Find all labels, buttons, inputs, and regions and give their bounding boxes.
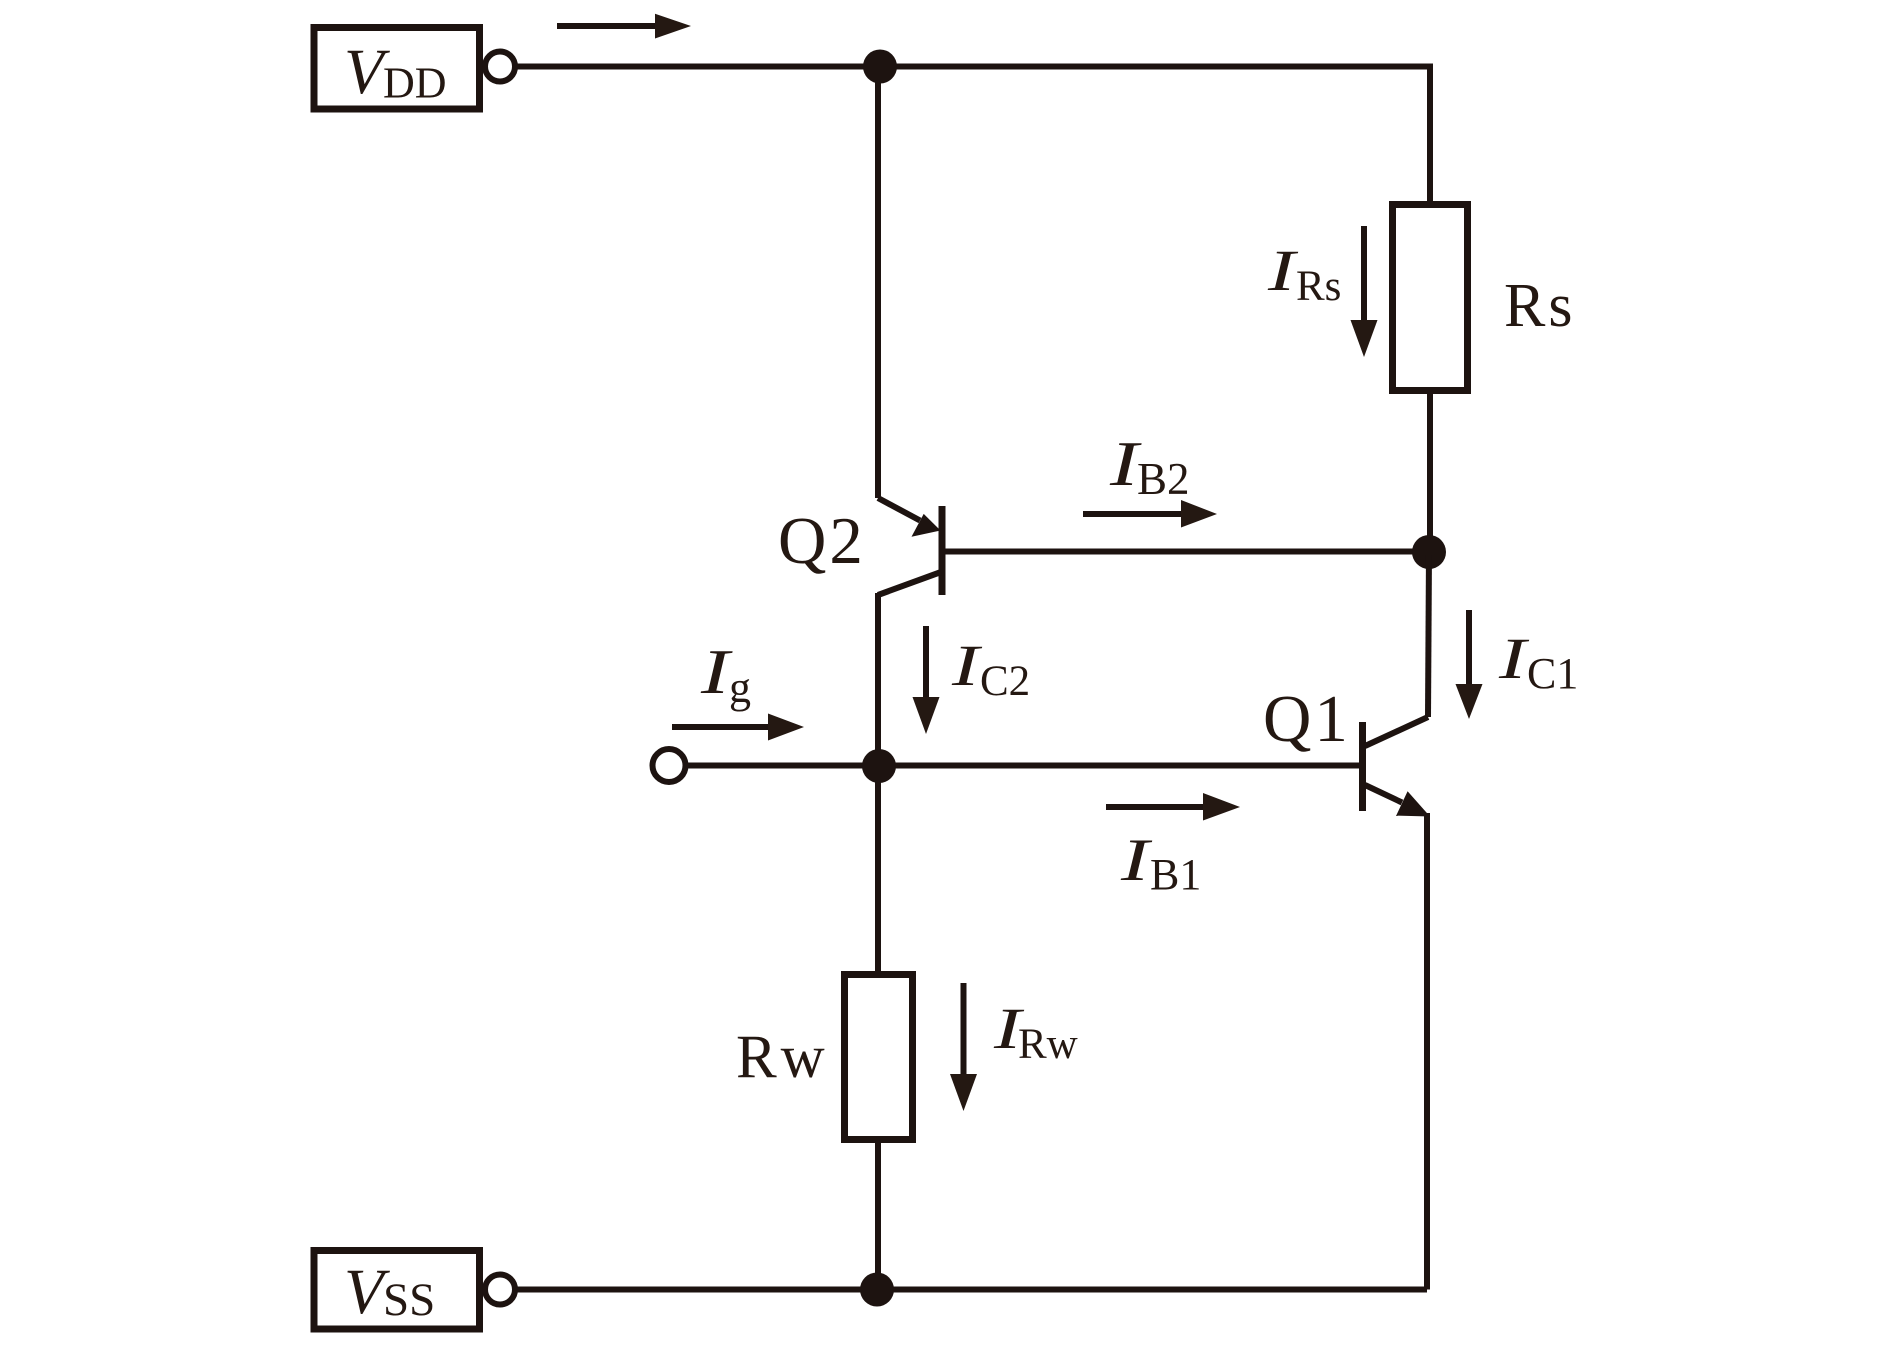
svg-text:Rw: Rw — [736, 1024, 829, 1091]
wire VSS bottom rail — [515, 1287, 1427, 1293]
wire VDD top rail — [515, 67, 1430, 205]
wire Q2 base to node B — [945, 549, 1430, 555]
wire node C down to Rw — [875, 766, 881, 975]
wire Rw to node D — [875, 1139, 881, 1290]
wire Q1 emitter to VSS rail — [1424, 813, 1430, 1290]
current arrow I_C2 — [913, 626, 940, 734]
current arrow I_B1 — [1106, 793, 1240, 821]
wire Rs to node B — [1427, 390, 1433, 553]
svg-text:I: I — [1267, 239, 1299, 303]
node C (input / Q2 collector / Q1 base / Rw junction) — [862, 749, 896, 783]
svg-text:B2: B2 — [1137, 454, 1190, 504]
resistor Rs — [1393, 205, 1576, 391]
transistor Q1 (NPN) — [1263, 682, 1430, 817]
input terminal (signal source) — [653, 749, 686, 782]
svg-text:Q1: Q1 — [1263, 682, 1351, 756]
current arrow I_Rs — [1351, 226, 1378, 357]
wire node A down to Q2 emitter — [875, 67, 881, 499]
svg-text:SS: SS — [383, 1274, 435, 1326]
current label I_C1 — [1498, 627, 1579, 698]
node B (Q2 base / Rs / Q1 collector junction) — [1412, 535, 1446, 569]
wire input terminal to node C — [684, 763, 880, 769]
svg-text:Rs: Rs — [1296, 263, 1341, 310]
node A (VDD junction) — [863, 50, 897, 84]
current arrow I_Rw — [950, 983, 977, 1111]
current label I_Rw — [993, 997, 1078, 1068]
svg-text:Rw: Rw — [1018, 1021, 1078, 1068]
current label I_g — [700, 637, 751, 712]
svg-text:Rs: Rs — [1504, 272, 1575, 340]
current arrow I_C1 — [1456, 610, 1483, 719]
wire Q2 collector down to node C — [875, 593, 881, 766]
svg-text:C1: C1 — [1527, 649, 1578, 698]
svg-text:I: I — [700, 637, 733, 707]
wire node C to Q1 base — [879, 763, 1360, 769]
wire node B to Q1 collector — [1428, 552, 1429, 717]
svg-text:I: I — [951, 634, 983, 698]
svg-text:I: I — [1498, 627, 1530, 691]
current arrow I_B2 — [1083, 500, 1217, 528]
transistor Q2 (PNP) — [778, 498, 942, 595]
current label I_C2 — [951, 634, 1030, 705]
current arrow I_g — [672, 714, 804, 741]
current label I_B1 — [1120, 827, 1202, 899]
svg-text:Q2: Q2 — [778, 504, 866, 578]
svg-text:I: I — [1120, 827, 1153, 894]
node D (VSS junction) — [860, 1273, 894, 1307]
svg-text:B1: B1 — [1150, 850, 1201, 899]
svg-text:g: g — [729, 663, 751, 712]
svg-text:DD: DD — [383, 59, 447, 108]
current label I_Rs — [1267, 239, 1342, 310]
power terminal VSS — [314, 1251, 515, 1330]
svg-text:C2: C2 — [980, 658, 1030, 705]
current label I_B2 — [1109, 429, 1190, 504]
power terminal VDD — [314, 28, 515, 110]
resistor Rw — [736, 975, 913, 1140]
supply current arrow (top) — [557, 14, 691, 39]
